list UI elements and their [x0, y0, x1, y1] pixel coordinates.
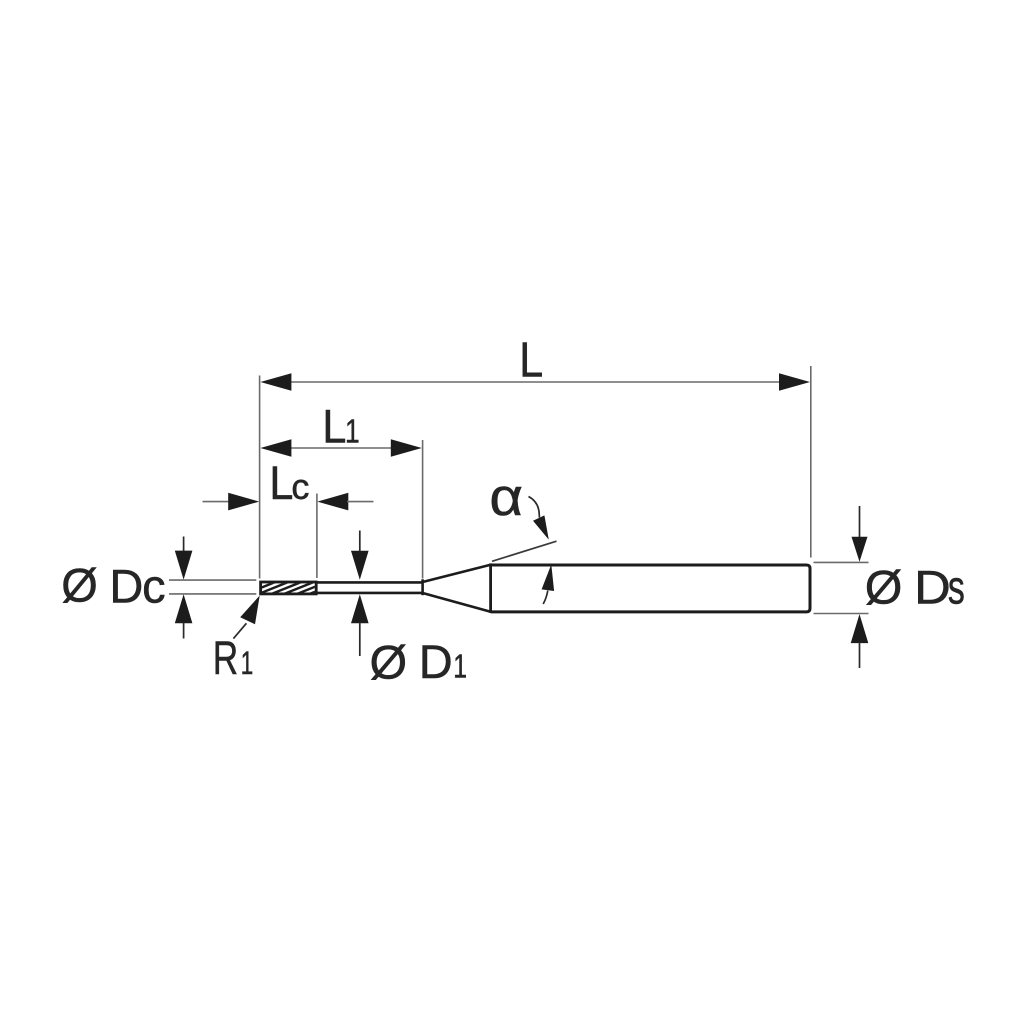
dimension Lc left tail: [203, 501, 231, 503]
taper cone bottom edge: [423, 593, 491, 612]
D1 top arrowhead (points down): [351, 551, 369, 580]
dimension L line: [289, 381, 781, 383]
neck bottom edge: [316, 592, 423, 595]
cone-shank junction face: [489, 563, 492, 613]
extension line left (tool tip / L,L1,Lc datum): [259, 376, 261, 579]
Ds bottom arrow tail: [859, 642, 861, 668]
svg-text:L: L: [269, 457, 293, 510]
alpha arrowhead onto slant line (points down-right): [533, 515, 549, 539]
svg-text:Ø: Ø: [61, 559, 98, 612]
Ds bottom arrowhead (points up): [851, 614, 869, 643]
dimension L left arrowhead: [260, 373, 291, 391]
taper cone top edge: [423, 565, 491, 582]
svg-text:D: D: [109, 560, 143, 613]
Dc extension line top: [169, 579, 256, 581]
Dc top arrowhead (points down): [175, 551, 193, 580]
svg-text:D: D: [914, 562, 951, 614]
Ds top arrow tail: [859, 506, 861, 538]
alpha arc from label: [529, 497, 540, 518]
R1 leader line: [233, 623, 246, 638]
svg-text:s: s: [948, 561, 965, 614]
svg-text:D: D: [419, 635, 453, 688]
Dc top arrow tail: [183, 537, 185, 553]
neck top edge: [316, 581, 423, 584]
Dc bottom arrowhead (points up): [175, 594, 193, 623]
R1 leader arrowhead (points up-right to tool corner): [240, 596, 260, 625]
svg-text:Ø: Ø: [370, 637, 408, 689]
extension line shank end (L right): [810, 366, 812, 558]
D1 top arrow tail: [359, 531, 361, 553]
dimension L1 line: [290, 447, 392, 449]
dimension L right arrowhead: [779, 373, 810, 391]
hatch lines of cutting head: [234, 579, 348, 599]
tool cutting head (hatched): [261, 582, 317, 594]
svg-text:c: c: [291, 466, 309, 507]
svg-text:R: R: [213, 631, 238, 684]
dimension L1 right arrowhead: [391, 439, 422, 457]
Ds top arrowhead (points down): [852, 537, 868, 562]
Ds extension line bottom: [814, 613, 869, 615]
svg-text:L: L: [519, 332, 543, 387]
dimension L1 left arrowhead: [260, 439, 291, 457]
svg-text:1: 1: [453, 649, 467, 685]
shank body: [491, 565, 810, 612]
dimension Lc right arrowhead (points left): [317, 493, 348, 511]
Dc extension line bottom: [169, 593, 256, 595]
extension line end of cut (Lc right): [316, 494, 318, 579]
Dc bottom arrow tail: [183, 622, 185, 638]
alpha slant reference line (cone slope extension): [492, 541, 557, 561]
svg-text:1: 1: [241, 645, 253, 681]
svg-text:c: c: [142, 560, 166, 613]
D1 bottom arrowhead (points up): [351, 594, 369, 623]
Ds extension line top: [814, 561, 869, 563]
alpha arc lower: [543, 591, 548, 605]
alpha arrowhead onto shank top edge (points up): [542, 564, 555, 591]
dimension Lc right tail: [347, 501, 374, 503]
svg-text:L: L: [322, 400, 346, 453]
dimension Lc left arrowhead (points right): [228, 493, 259, 511]
svg-text:α: α: [489, 467, 523, 526]
svg-text:Ø: Ø: [865, 562, 903, 614]
D1 bottom arrow tail: [359, 622, 361, 656]
neck end face: [421, 579, 424, 595]
extension line end of neck (L1 right): [422, 440, 424, 579]
svg-text:1: 1: [345, 414, 360, 450]
